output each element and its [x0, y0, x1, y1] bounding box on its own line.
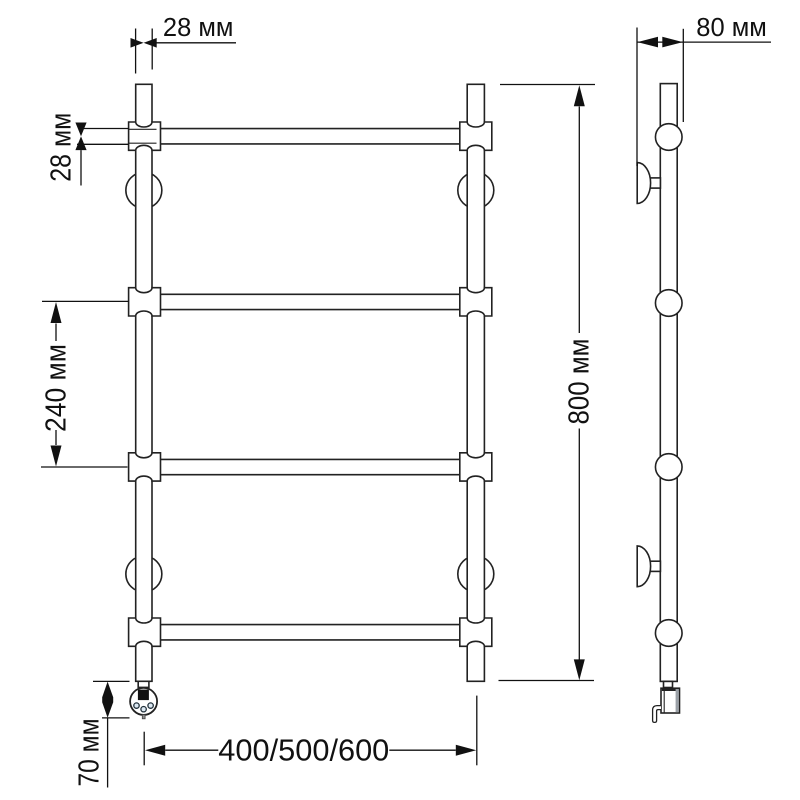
heater dark collar: [139, 687, 148, 689]
svg-text:240 мм: 240 мм: [41, 344, 73, 432]
horizontal rail 2: [161, 293, 460, 295]
junction block right post, rail 2: [460, 288, 492, 316]
horizontal rail 4: [161, 624, 460, 626]
side view heater neck: [664, 681, 673, 687]
dimension 70 mm: dimension line tail: [107, 718, 109, 788]
side view vertical post: [660, 84, 677, 682]
side view rail 1 end circle: [655, 124, 682, 151]
side view wall bracket upper: [649, 178, 660, 188]
svg-text:80 мм: 80 мм: [696, 14, 767, 42]
svg-text:28 мм: 28 мм: [163, 14, 234, 42]
svg-text:70 мм: 70 мм: [74, 719, 106, 787]
side view heater housing: [661, 688, 680, 713]
side view rail 2 end circle: [655, 290, 682, 317]
plug pin 1: [134, 703, 139, 708]
dimension 28 mm (rail): dimension line tail: [80, 150, 82, 185]
dimension 80 mm: extension lines: [636, 28, 638, 167]
dimension 400/500/600: dimension line and arrows: [145, 745, 165, 756]
dimension 70 mm: outward double-arrow diamond: [102, 682, 113, 718]
heater neck below left post: [138, 681, 149, 687]
junction block right post, rail 1: [460, 122, 492, 150]
side view rail 3 end circle: [655, 454, 682, 481]
horizontal rail 3: [161, 458, 460, 460]
dimension 400/500/600: extension lines: [143, 732, 145, 766]
dimension 240 mm: dimension line and arrows: [51, 302, 62, 323]
junction block right post, rail 4: [460, 618, 492, 646]
dimension 80 mm: dimension line: [637, 41, 771, 43]
dimension 28 mm (top): double-arrow: [131, 38, 157, 48]
junction block right post, rail 3: [460, 453, 492, 481]
dimension 800 mm: extension lines: [500, 84, 595, 86]
svg-text:400/500/600: 400/500/600: [218, 733, 389, 768]
side view rail 4 end circle: [655, 620, 682, 647]
svg-text:800 мм: 800 мм: [564, 339, 596, 425]
left vertical post (front view): [136, 84, 152, 681]
front wall-bracket circle lower-right: [458, 556, 494, 592]
front wall-bracket circle upper-right: [458, 172, 494, 208]
dimension 28 mm (rail): double-arrow: [75, 123, 86, 151]
dimension 240 mm: extension lines: [42, 300, 129, 302]
dimension 70 mm: extension lines: [93, 680, 130, 682]
horizontal rail 1: [161, 128, 460, 130]
plug pin 2: [141, 707, 146, 712]
dimension 28 mm (post width, top): extension lines: [135, 29, 137, 74]
dimension 28 mm (top): dimension line: [152, 42, 236, 44]
junction block left post, rail 1: [129, 122, 161, 150]
heater plug circle: [130, 688, 157, 715]
junction block left post, rail 4: [129, 618, 161, 646]
rail 1 lines through left block: [129, 128, 157, 130]
right vertical post (front view): [467, 84, 484, 681]
heater plug black keyway: [138, 690, 149, 701]
dimension 800 mm: dimension line and arrows: [574, 85, 585, 106]
side view power cable: [653, 706, 661, 723]
svg-text:28 мм: 28 мм: [46, 113, 78, 182]
front wall-bracket circle upper-left: [126, 172, 162, 208]
plug stem: [142, 715, 145, 719]
plug pin 3: [148, 703, 153, 708]
front wall-bracket circle lower-left: [126, 556, 162, 592]
junction block left post, rail 3: [129, 453, 161, 481]
side view wall bracket lower: [649, 561, 660, 571]
dimension 80 mm: outward arrowheads: [637, 37, 658, 48]
junction block left post, rail 2: [129, 288, 161, 316]
dimension 28 mm (rail diameter): extension lines: [84, 128, 129, 130]
